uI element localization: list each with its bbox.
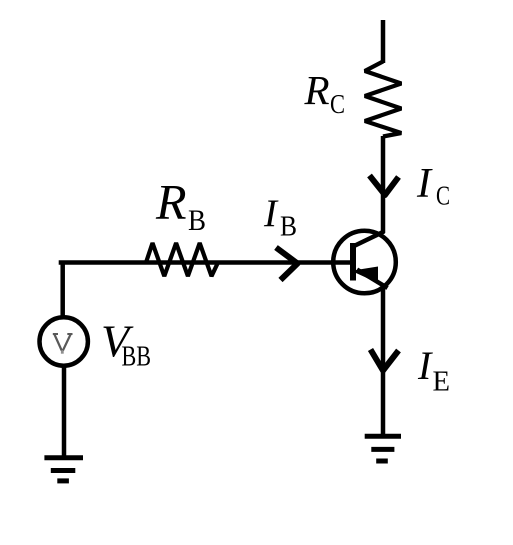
current arrow IC: [370, 176, 399, 196]
resistor RB: [146, 243, 218, 276]
transistor Q1: [333, 231, 396, 294]
resistor RC: [365, 62, 402, 137]
current arrow IB: [276, 248, 298, 281]
svg-text:B: B: [280, 212, 297, 243]
current arrow IE: [371, 350, 399, 371]
svg-text:R: R: [155, 174, 187, 230]
wire collector mid: [381, 136, 386, 233]
svg-text:B: B: [188, 204, 206, 237]
wire left vertical bottom: [62, 366, 67, 456]
svg-text:BB: BB: [122, 342, 152, 373]
svg-text:R: R: [304, 67, 330, 113]
svg-text:E: E: [433, 365, 451, 397]
ground left: [44, 458, 83, 481]
wire left vertical top: [60, 261, 65, 319]
wire collector top: [381, 20, 386, 63]
svg-text:I: I: [416, 161, 433, 207]
ground right: [365, 436, 401, 461]
wire emitter: [381, 284, 386, 436]
voltage source VBB: [40, 317, 88, 365]
svg-text:I: I: [263, 192, 279, 235]
svg-text:I: I: [417, 343, 433, 388]
svg-text:C: C: [436, 181, 450, 211]
wire base: [59, 260, 350, 265]
svg-text:C: C: [330, 89, 345, 119]
